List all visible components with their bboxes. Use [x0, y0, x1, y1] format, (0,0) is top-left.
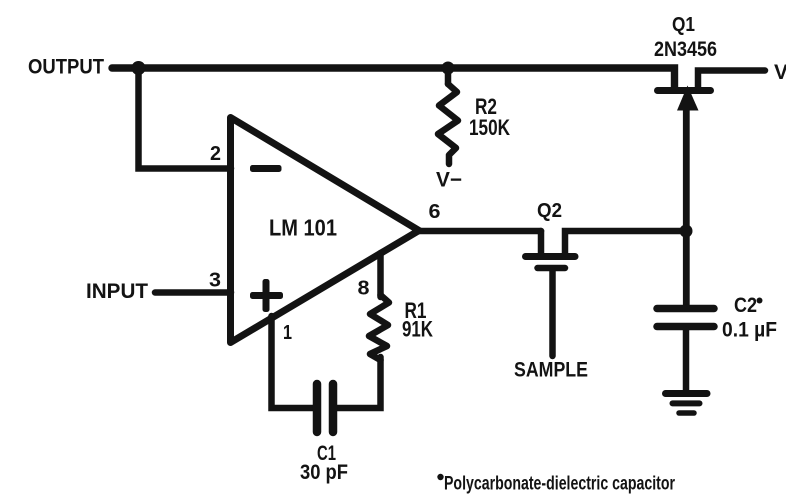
svg-text:2: 2: [210, 143, 221, 165]
wire: Q1 gate down through junction to C2: [683, 108, 690, 305]
svg-text:30 pF: 30 pF: [300, 461, 348, 484]
capacitor C2 bottom plate: [657, 323, 714, 331]
asterisk dot for C2: [757, 298, 763, 304]
resistor R2 zigzag: [438, 84, 458, 164]
wire: pin 1 lead down to C1: [272, 316, 315, 408]
asterisk dot for footnote: [437, 474, 443, 480]
wire: output junction down to pin 2: [139, 68, 232, 169]
ground bar 1: [666, 390, 708, 397]
op-amp U1 LM101 triangle: [231, 118, 420, 343]
svg-text:Q2: Q2: [537, 200, 562, 222]
ground bar 3: [679, 410, 694, 416]
wire: op-amp output pin 6 to Q2: [417, 228, 541, 235]
capacitor C1 right plate: [329, 384, 338, 432]
node: Q2/C2 junction dot: [680, 225, 693, 238]
svg-text:Polycarbonate-dielectric capac: Polycarbonate-dielectric capacitor: [444, 473, 675, 495]
svg-text:OUTPUT: OUTPUT: [28, 56, 104, 79]
op-amp plus sign (pin 3 input): [250, 292, 283, 299]
transistor Q2 left lead: [538, 231, 545, 253]
wire: C2 to ground: [683, 330, 690, 390]
transistor Q1 right lead and wire to V: [698, 71, 765, 88]
svg-text:150K: 150K: [469, 115, 510, 140]
transistor Q1 gate arrow: [677, 86, 699, 111]
svg-text:SAMPLE: SAMPLE: [514, 359, 588, 382]
resistor R1 zigzag: [369, 295, 389, 360]
wire: Q2 gate down to SAMPLE: [549, 271, 556, 356]
capacitor C1 left plate: [313, 384, 322, 432]
wire: C1 right plate to R1 bottom lead: [336, 357, 381, 408]
svg-text:LM 101: LM 101: [269, 215, 337, 241]
transistor Q2 right lead and wire to junction: [565, 231, 686, 253]
svg-text:C2: C2: [734, 294, 757, 317]
svg-text:0.1 µF: 0.1 µF: [722, 319, 777, 342]
node: R2 junction dot: [442, 62, 455, 75]
transistor Q2 channel bar: [526, 253, 576, 260]
transistor Q2 gate bar: [538, 265, 566, 272]
svg-text:2N3456: 2N3456: [654, 38, 717, 61]
svg-text:1: 1: [283, 322, 292, 344]
svg-text:3: 3: [209, 270, 221, 292]
node: OUTPUT junction dot: [132, 61, 146, 75]
wire: OUTPUT stub and main top rail to Q1: [112, 68, 675, 87]
wire: INPUT to pin 3: [155, 289, 231, 296]
ground bar 2: [673, 400, 700, 406]
capacitor C2 top plate: [657, 305, 714, 313]
wire: pin 8 lead down to R1: [377, 253, 384, 297]
svg-text:INPUT: INPUT: [86, 280, 148, 303]
svg-text:91K: 91K: [402, 317, 433, 342]
resistor R2 lead from rail: [445, 70, 452, 84]
svg-text:6: 6: [429, 201, 441, 223]
op-amp minus sign (pin 2 input): [250, 165, 282, 172]
svg-text:V−: V−: [436, 169, 462, 192]
svg-text:Q1: Q1: [672, 14, 695, 36]
svg-text:8: 8: [358, 278, 370, 300]
svg-text:V: V: [774, 61, 786, 84]
transistor Q1 channel bar: [658, 87, 711, 94]
